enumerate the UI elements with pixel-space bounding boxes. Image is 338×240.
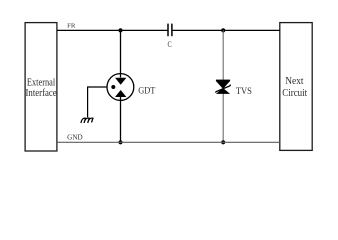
wire FR right segment (capacitor to box): [172, 29, 279, 31]
svg-text:Circuit: Circuit: [282, 87, 307, 99]
node GND label: [67, 134, 82, 142]
GDT label: [138, 86, 156, 96]
junction dot bottom GND / GDT: [118, 140, 122, 144]
wire GDT third electrode to ground: [88, 87, 108, 117]
wire GDT branch lower: [120, 97, 122, 142]
svg-text:Interface: Interface: [26, 87, 57, 99]
svg-text:Next: Next: [285, 75, 303, 87]
wire GDT branch upper: [120, 30, 122, 77]
next circuit box: [280, 23, 312, 151]
svg-text:GND: GND: [67, 134, 82, 142]
junction dot top FR / GDT: [118, 28, 122, 32]
ground (chassis): [81, 118, 93, 123]
external interface box: [25, 23, 57, 151]
wire TVS branch (vertical): [222, 30, 224, 142]
node FR label: [67, 23, 76, 30]
svg-text:TVS: TVS: [236, 86, 252, 96]
svg-text:FR: FR: [67, 23, 76, 30]
TVS diode: [215, 80, 230, 94]
TVS label: [236, 86, 252, 96]
svg-text:GDT: GDT: [138, 86, 156, 96]
wire FR left segment (box to capacitor): [57, 29, 168, 31]
wire GND bottom: [57, 141, 280, 143]
junction dot bottom GND / TVS: [221, 140, 225, 144]
capacitor C: [168, 24, 172, 49]
GDT tube: [107, 74, 134, 101]
junction dot top FR / TVS: [221, 28, 225, 32]
svg-text:C: C: [168, 40, 172, 49]
